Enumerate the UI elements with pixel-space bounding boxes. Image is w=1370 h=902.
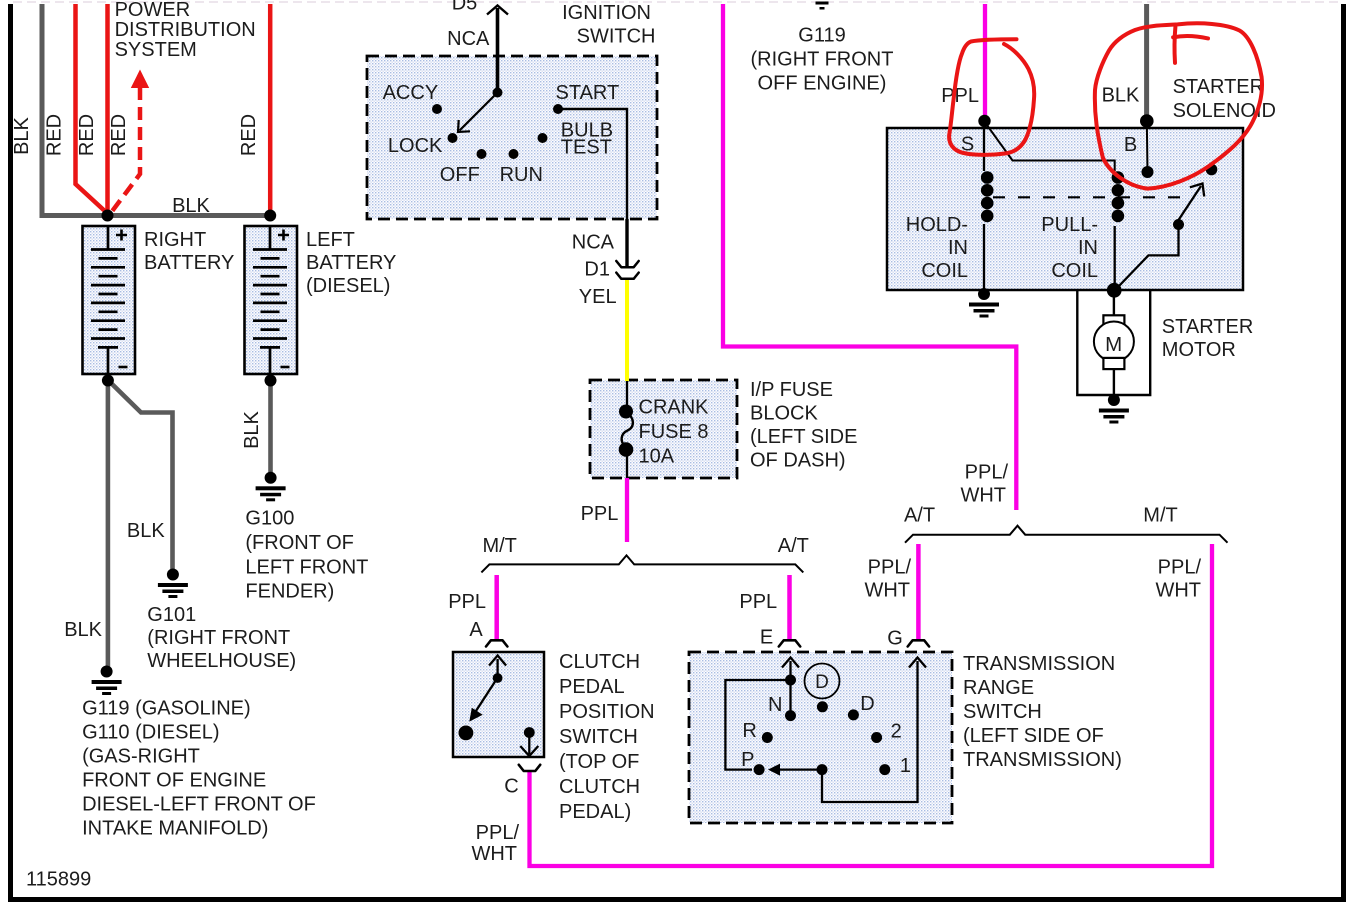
svg-text:D: D <box>860 693 874 715</box>
svg-text:BLK: BLK <box>241 410 263 448</box>
svg-text:G100: G100 <box>245 508 294 530</box>
svg-text:M/T: M/T <box>482 535 516 557</box>
svg-text:YEL: YEL <box>579 286 617 308</box>
svg-text:SYSTEM: SYSTEM <box>115 39 197 61</box>
svg-text:115899: 115899 <box>26 869 91 891</box>
svg-text:R: R <box>742 720 756 742</box>
svg-text:WHT: WHT <box>960 485 1006 507</box>
svg-text:TRANSMISSION: TRANSMISSION <box>963 653 1115 675</box>
svg-text:(DIESEL): (DIESEL) <box>306 275 390 297</box>
svg-text:C: C <box>504 776 518 798</box>
svg-text:PEDAL): PEDAL) <box>559 801 631 823</box>
svg-text:1: 1 <box>900 755 911 777</box>
svg-text:IN: IN <box>948 237 968 259</box>
svg-text:G119: G119 <box>798 25 845 47</box>
svg-text:FUSE 8: FUSE 8 <box>639 421 709 443</box>
svg-text:INTAKE MANIFOLD): INTAKE MANIFOLD) <box>82 818 268 840</box>
svg-text:(TOP OF: (TOP OF <box>559 751 639 773</box>
svg-text:ACCY: ACCY <box>383 82 439 104</box>
svg-text:WHEELHOUSE): WHEELHOUSE) <box>147 650 296 672</box>
svg-text:BATTERY: BATTERY <box>144 252 234 274</box>
svg-text:(LEFT SIDE: (LEFT SIDE <box>750 426 857 448</box>
svg-text:STARTER: STARTER <box>1162 316 1254 338</box>
svg-text:LEFT: LEFT <box>306 229 355 251</box>
svg-text:CLUTCH: CLUTCH <box>559 651 640 673</box>
svg-text:DISTRIBUTION: DISTRIBUTION <box>115 19 256 41</box>
svg-text:SWITCH: SWITCH <box>963 701 1042 723</box>
svg-text:G101: G101 <box>147 604 196 626</box>
svg-text:RED: RED <box>108 114 130 156</box>
svg-text:PPL: PPL <box>448 591 486 613</box>
svg-text:IGNITION: IGNITION <box>562 2 651 24</box>
svg-text:BLK: BLK <box>1102 85 1140 107</box>
svg-text:LEFT FRONT: LEFT FRONT <box>245 556 368 578</box>
svg-text:PPL/: PPL/ <box>1158 557 1202 579</box>
svg-text:M: M <box>1105 333 1122 356</box>
svg-text:TEST: TEST <box>561 136 612 158</box>
svg-text:BLK: BLK <box>64 619 102 641</box>
svg-text:B: B <box>1124 134 1137 156</box>
svg-text:I/P FUSE: I/P FUSE <box>750 379 833 401</box>
svg-text:PPL: PPL <box>581 503 619 525</box>
svg-text:RANGE: RANGE <box>963 677 1034 699</box>
svg-text:IN: IN <box>1078 237 1098 259</box>
svg-text:COIL: COIL <box>921 260 968 282</box>
svg-text:STARTER: STARTER <box>1173 76 1265 98</box>
svg-text:NCA: NCA <box>572 232 615 254</box>
svg-text:HOLD-: HOLD- <box>906 214 968 236</box>
svg-text:(RIGHT FRONT: (RIGHT FRONT <box>751 49 894 71</box>
svg-text:CRANK: CRANK <box>639 397 710 419</box>
svg-text:D5: D5 <box>452 0 478 15</box>
svg-text:RUN: RUN <box>500 164 543 186</box>
svg-text:FRONT OF ENGINE: FRONT OF ENGINE <box>82 770 266 792</box>
svg-text:2: 2 <box>891 721 902 743</box>
svg-text:RIGHT: RIGHT <box>144 229 206 251</box>
svg-text:COIL: COIL <box>1051 260 1098 282</box>
svg-text:10A: 10A <box>639 446 675 468</box>
svg-text:TRANSMISSION): TRANSMISSION) <box>963 749 1122 771</box>
svg-text:START: START <box>556 82 620 104</box>
svg-text:G119 (GASOLINE): G119 (GASOLINE) <box>82 698 251 720</box>
svg-text:G110 (DIESEL): G110 (DIESEL) <box>82 722 219 744</box>
svg-text:OFF ENGINE): OFF ENGINE) <box>758 73 887 95</box>
svg-text:POSITION: POSITION <box>559 701 655 723</box>
svg-text:MOTOR: MOTOR <box>1162 339 1236 361</box>
svg-text:CLUTCH: CLUTCH <box>559 776 640 798</box>
svg-text:M/T: M/T <box>1143 505 1177 527</box>
svg-text:SWITCH: SWITCH <box>559 726 638 748</box>
svg-text:(FRONT OF: (FRONT OF <box>245 532 354 554</box>
svg-text:WHT: WHT <box>471 843 517 865</box>
svg-text:PPL/: PPL/ <box>868 557 912 579</box>
svg-text:PPL/: PPL/ <box>965 462 1009 484</box>
svg-text:N: N <box>768 694 782 716</box>
svg-text:PPL/: PPL/ <box>476 822 520 844</box>
svg-text:BLK: BLK <box>127 520 165 542</box>
svg-text:RED: RED <box>76 114 98 156</box>
svg-text:P: P <box>741 749 754 771</box>
svg-text:RED: RED <box>44 114 66 156</box>
svg-text:WHT: WHT <box>1155 580 1201 602</box>
svg-text:E: E <box>760 627 773 649</box>
svg-text:A/T: A/T <box>778 535 809 557</box>
svg-text:(GAS-RIGHT: (GAS-RIGHT <box>82 746 200 768</box>
svg-text:D1: D1 <box>584 259 610 281</box>
svg-text:LOCK: LOCK <box>388 135 443 157</box>
svg-text:BATTERY: BATTERY <box>306 252 396 274</box>
svg-text:SWITCH: SWITCH <box>577 25 656 47</box>
svg-text:DIESEL-LEFT FRONT OF: DIESEL-LEFT FRONT OF <box>82 794 316 816</box>
svg-text:FENDER): FENDER) <box>245 581 334 603</box>
svg-text:WHT: WHT <box>864 580 910 602</box>
svg-text:PPL: PPL <box>739 591 777 613</box>
svg-text:A: A <box>469 619 483 641</box>
svg-text:(RIGHT FRONT: (RIGHT FRONT <box>147 627 290 649</box>
svg-text:(LEFT SIDE OF: (LEFT SIDE OF <box>963 725 1104 747</box>
svg-text:PPL: PPL <box>941 85 979 107</box>
svg-text:G: G <box>887 628 903 650</box>
svg-text:NCA: NCA <box>447 28 490 50</box>
svg-text:OF DASH): OF DASH) <box>750 450 846 472</box>
svg-text:BLK: BLK <box>172 195 210 217</box>
svg-text:RED: RED <box>238 114 260 156</box>
svg-text:A/T: A/T <box>904 505 935 527</box>
svg-text:BLK: BLK <box>11 116 33 154</box>
svg-text:PEDAL: PEDAL <box>559 676 625 698</box>
svg-text:BLOCK: BLOCK <box>750 403 818 425</box>
svg-text:PULL-: PULL- <box>1041 214 1098 236</box>
svg-text:D: D <box>815 672 829 693</box>
svg-text:OFF: OFF <box>440 164 480 186</box>
svg-text:POWER: POWER <box>115 0 191 21</box>
